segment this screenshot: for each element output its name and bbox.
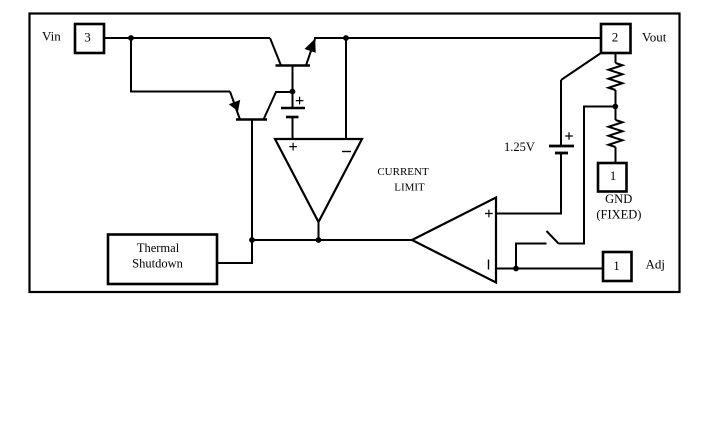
svg-text:LIMIT: LIMIT <box>394 182 425 194</box>
wire: junction down-left branch <box>131 38 230 92</box>
svg-text:2: 2 <box>612 30 619 45</box>
svg-text:Vout: Vout <box>642 30 667 45</box>
svg-text:Thermal: Thermal <box>137 241 180 255</box>
wire: Vin rail (box 3 to Q1 collector) <box>104 37 270 39</box>
svg-text:Vin: Vin <box>42 29 61 44</box>
wire: error amp inverting input lead <box>345 38 347 139</box>
svg-text:Shutdown: Shutdown <box>132 257 183 271</box>
wire: base drive rail <box>252 239 412 241</box>
pin box 3 <box>75 24 104 53</box>
node: U1 output junction <box>316 237 322 243</box>
wire: U2 noninverting input to reference <box>496 153 561 214</box>
op-amp U1 (error amplifier, pointing down) <box>275 139 362 222</box>
pin box 2 <box>601 24 631 53</box>
node: Adj rail junction <box>513 266 519 272</box>
svg-text:Adj: Adj <box>646 257 666 272</box>
node: base rail junction <box>249 237 255 243</box>
svg-text:3: 3 <box>84 30 91 45</box>
svg-text:CURRENT: CURRENT <box>377 166 429 178</box>
wire: battery to Vout pin (diagonal) <box>561 53 601 80</box>
svg-text:1: 1 <box>610 168 617 183</box>
node: divider junction <box>612 104 618 110</box>
transistor Q1 (output pass transistor) <box>270 38 316 92</box>
svg-text:(FIXED): (FIXED) <box>596 208 641 222</box>
border frame <box>30 14 680 293</box>
wire: Vout rail (Q1 emitter to box 2) <box>314 37 601 39</box>
node: Vin rail junction <box>128 35 134 41</box>
op-amp U2 (current limit, pointing left) <box>412 198 496 283</box>
wire: U2 inverting input / Adj rail <box>496 268 603 270</box>
svg-text:1: 1 <box>613 258 620 273</box>
battery B1 1.25V reference <box>549 80 574 153</box>
resistor R2 <box>609 107 623 164</box>
node: Vout rail junction <box>343 35 349 41</box>
pin box 1 (Adj) <box>603 252 632 281</box>
transistor Q2 (driver) <box>229 92 293 264</box>
pin box 1 (GND fixed) <box>598 163 627 192</box>
node: Q1 base / Q2 collector junction <box>290 89 296 95</box>
wire: U1 output <box>318 222 320 240</box>
resistor R1 <box>609 53 623 107</box>
svg-text:GND: GND <box>605 192 632 206</box>
svg-text:1.25V: 1.25V <box>504 140 535 154</box>
Thermal Shutdown block <box>108 235 217 285</box>
capacitor C1 (with + mark) <box>281 92 305 140</box>
wire: thermal shutdown to base lead <box>217 262 253 264</box>
switch S1 (open) <box>516 107 615 269</box>
